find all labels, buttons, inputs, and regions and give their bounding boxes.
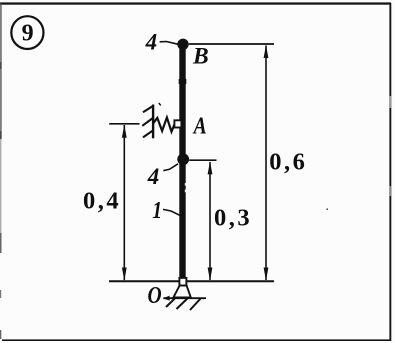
extension line from middle ball <box>189 159 216 161</box>
svg-text:0,6: 0,6 <box>269 148 307 175</box>
border frame bottom <box>2 339 391 341</box>
support base line <box>164 297 207 299</box>
ball B (top mass) <box>177 39 188 50</box>
support hatch stroke 3 <box>190 299 201 311</box>
svg-text:B: B <box>192 44 209 70</box>
rod 1 (vertical bar O to B) <box>179 45 185 279</box>
ball at middle (mass 4) <box>177 153 189 165</box>
extension line from B <box>189 43 274 45</box>
wall tick top right <box>159 103 161 105</box>
dimension line 0,3 <box>209 162 211 280</box>
extension line at spring level <box>109 123 139 125</box>
dimension line 0,4 <box>123 125 125 280</box>
border frame left (broken) <box>0 3 2 339</box>
dimension line 0,6 <box>265 46 267 281</box>
wall hatch stroke 1 <box>143 106 153 112</box>
speck artifact <box>326 208 328 210</box>
support hatch stroke 1 <box>166 299 175 308</box>
spring (zigzag wall to A) <box>153 118 174 132</box>
ground line <box>109 280 274 282</box>
svg-text:1: 1 <box>152 196 162 223</box>
support triangle at O <box>173 286 190 298</box>
border frame right <box>389 3 391 341</box>
border frame top <box>0 2 391 4</box>
svg-text:9: 9 <box>22 20 34 46</box>
leader line 1 to rod <box>163 209 180 215</box>
problem number circle 9 <box>11 16 43 49</box>
wall hatch stroke 3 <box>143 130 153 137</box>
pin at O (white square) <box>179 278 186 286</box>
wall hatch stroke 2 <box>142 118 153 126</box>
spring end block at A <box>174 120 181 127</box>
svg-text:0,3: 0,3 <box>214 204 252 231</box>
support hatch stroke 2 <box>177 299 188 310</box>
svg-text:A: A <box>192 111 207 139</box>
svg-text:0,4: 0,4 <box>83 188 121 215</box>
wall (spring anchor) <box>152 105 154 139</box>
leader line 4 to middle ball <box>163 164 178 171</box>
svg-text:O: O <box>148 281 162 309</box>
support base left wedge <box>163 296 170 301</box>
svg-text:4: 4 <box>147 164 160 189</box>
svg-text:4: 4 <box>145 30 158 55</box>
leader line 4 to ball B <box>160 42 178 45</box>
